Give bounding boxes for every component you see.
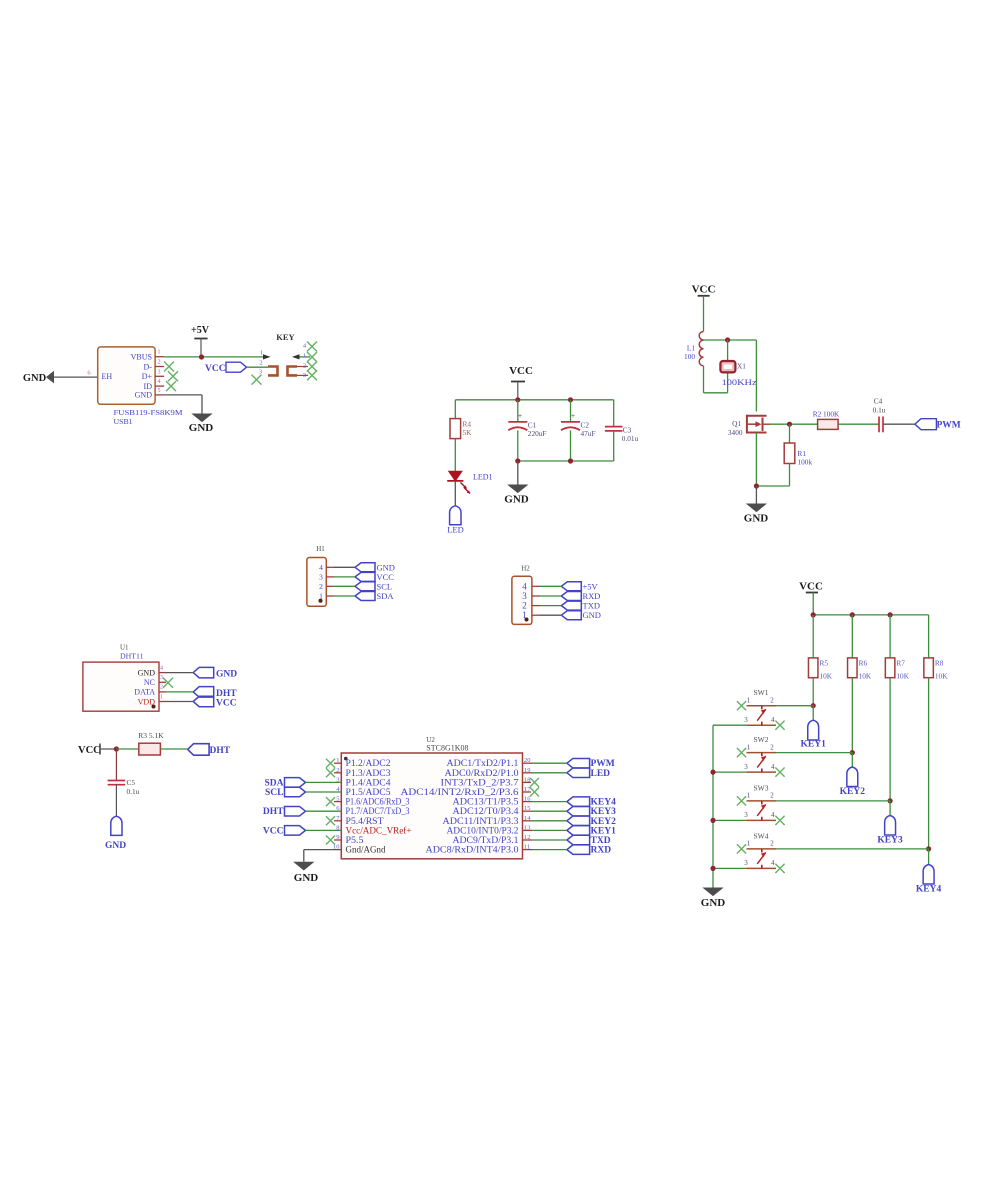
svg-text:GND: GND [216,670,237,680]
svg-text:2: 2 [319,582,323,591]
svg-text:1: 1 [160,694,163,700]
resistor R2 100K [818,419,839,429]
wire [851,678,853,753]
svg-text:P1.2/ADC2: P1.2/ADC2 [346,758,391,768]
svg-text:R5: R5 [820,659,829,668]
wire [789,424,791,443]
junction [515,397,520,402]
resistor R8 10K [928,615,930,658]
no-connect X U2 left pin 5 [334,801,341,803]
svg-text:R7: R7 [896,659,905,668]
svg-text:GND: GND [504,494,529,506]
svg-text:1: 1 [303,353,306,360]
junction [710,818,715,823]
svg-text:GND: GND [294,872,319,884]
no-connect X on KEY left pin3 [252,375,262,385]
svg-text:2: 2 [160,685,163,691]
svg-text:R6: R6 [859,659,868,668]
svg-text:VCC: VCC [205,364,226,374]
svg-text:RXD: RXD [591,846,612,856]
no-connect X U2 left pin 1 [334,762,341,764]
resistor R7 10K [889,615,891,658]
capacitor C3 0.01u [613,400,615,427]
no-connect X marks on KEY right half [307,342,317,352]
svg-text:4: 4 [771,859,775,867]
svg-text:2: 2 [158,360,161,366]
wire tank top [704,339,757,341]
no-connect X U2 left pin 9 [334,839,341,841]
svg-text:5: 5 [158,388,161,394]
svg-text:SCL: SCL [377,581,393,591]
wire [812,678,814,706]
svg-text:KEY4: KEY4 [916,885,942,895]
svg-text:VCC: VCC [692,284,716,296]
svg-text:3: 3 [522,591,527,601]
svg-text:SCL: SCL [265,788,283,798]
svg-text:DATA: DATA [134,688,155,697]
wire [166,672,193,674]
wire gnd bus (keys) [712,725,714,887]
wire [755,486,757,504]
KEY connector right half [292,354,300,359]
svg-text:100: 100 [684,352,695,361]
gnd net wire from USB GND pin [164,394,202,396]
wire [755,340,757,412]
svg-text:4: 4 [771,811,775,819]
net flag DHT (U1) [193,687,214,698]
no-connect X on ID [166,381,176,391]
inductor L1 100 [699,332,703,341]
svg-text:D-: D- [144,362,153,371]
no-connect X on D- [164,362,174,372]
resistor R5 10K [812,615,814,658]
wire top rail (keys) [813,614,928,616]
svg-text:RXD: RXD [583,591,601,601]
wire [115,749,117,781]
wire [116,748,138,750]
svg-text:Q1: Q1 [732,419,741,428]
ground GND (oscillator) [747,504,766,512]
svg-text:KEY1: KEY1 [591,826,617,836]
svg-text:VCC: VCC [799,581,823,593]
wire [166,701,193,703]
svg-text:5K: 5K [463,428,473,437]
svg-text:0.01u: 0.01u [622,434,639,443]
svg-text:P1.5/ADC5: P1.5/ADC5 [346,787,392,797]
no-connect X U2 left pin 2 [334,772,341,774]
net flag DHT (R3) [188,744,210,756]
no-connect X U2 right pin 17 [523,791,532,793]
net port KEY2 [851,753,853,767]
net flag RXD (U2) [532,849,567,851]
wire [755,433,757,487]
net port GND (C5) [111,816,122,835]
junction [568,458,573,463]
junction [754,483,759,488]
svg-text:4: 4 [160,665,163,671]
svg-text:4: 4 [771,763,775,771]
wire [115,785,117,817]
wire [517,461,519,485]
svg-text:ADC8/RxD/INT4/P3.0: ADC8/RxD/INT4/P3.0 [426,845,520,855]
wire Gnd/AGnd to ground [304,849,342,851]
svg-text:10K: 10K [935,672,948,681]
resistor R4 5K [450,419,461,439]
svg-text:3: 3 [158,369,161,375]
wire top rail [455,399,613,401]
ground GND (U2) [295,862,314,870]
svg-text:+: + [571,411,575,420]
net flag GND (U1) [193,667,214,678]
svg-text:TXD: TXD [591,836,611,846]
resistor R3 5.1K [139,743,161,755]
capacitor C5 0.1u [108,780,126,782]
svg-text:INT3/TxD_2/P3.7: INT3/TxD_2/P3.7 [441,777,520,787]
svg-text:C4: C4 [874,397,883,406]
junction [888,798,893,803]
svg-text:ADC14/INT2/RxD_2/P3.6: ADC14/INT2/RxD_2/P3.6 [401,787,520,797]
svg-text:ADC11/INT1/P3.3: ADC11/INT1/P3.3 [443,816,520,826]
net flag KEY2 (U2) [532,820,567,822]
svg-text:P5.4/RST: P5.4/RST [346,816,385,826]
LED LED1 [449,471,462,481]
svg-text:VCC: VCC [263,826,284,836]
svg-text:PWM: PWM [591,759,615,769]
svg-text:1: 1 [747,840,751,848]
no-connect X U2 left pin 7 [334,820,341,822]
junction [515,458,520,463]
svg-text:3400: 3400 [728,428,743,437]
junction [199,354,204,359]
svg-text:4: 4 [771,716,775,724]
svg-text:LED: LED [591,769,611,779]
svg-text:P5.5: P5.5 [346,835,365,845]
svg-text:3: 3 [744,811,748,819]
junction [811,612,816,617]
svg-text:10K: 10K [859,672,872,681]
junction [114,746,119,751]
svg-text:ADC13/T1/P3.5: ADC13/T1/P3.5 [453,797,520,807]
svg-text:2: 2 [259,360,262,367]
wire [789,464,791,487]
junction [926,846,931,851]
svg-text:GND: GND [135,391,153,400]
net flag KEY3 (U2) [532,810,567,812]
wire [54,376,98,378]
svg-text:KEY2: KEY2 [591,817,617,827]
svg-text:KEY3: KEY3 [591,807,617,817]
svg-text:KEY3: KEY3 [877,836,903,846]
junction [850,750,855,755]
svg-text:SW4: SW4 [754,831,769,840]
svg-text:SDA: SDA [377,591,395,601]
svg-text:P1.3/ADC3: P1.3/ADC3 [346,768,392,778]
svg-text:+: + [518,411,522,420]
svg-text:C5: C5 [127,778,136,787]
svg-text:USB1: USB1 [114,417,133,426]
capacitor C4 0.1u [878,417,880,433]
svg-text:R3 5.1K: R3 5.1K [138,731,164,740]
svg-text:3: 3 [744,763,748,771]
wire [889,678,891,801]
svg-text:GND: GND [138,668,156,677]
svg-text:0.1u: 0.1u [873,406,886,415]
transistor Q1 3400 [746,415,767,417]
svg-text:3: 3 [744,716,748,724]
no-connect X on NC [163,678,173,688]
svg-text:3: 3 [160,675,163,681]
svg-text:GND: GND [23,373,47,384]
svg-text:DHT: DHT [263,807,284,817]
svg-text:2: 2 [770,792,774,800]
capacitor C1 220uF [517,400,519,422]
svg-text:U1: U1 [120,644,129,652]
svg-text:4: 4 [158,379,161,385]
svg-text:3: 3 [319,572,323,581]
ground GND (filter) [509,485,528,493]
svg-text:VCC: VCC [216,698,237,708]
svg-text:P1.7/ADC7/TxD_3: P1.7/ADC7/TxD_3 [346,806,410,816]
svg-text:3: 3 [744,859,748,867]
svg-text:SW2: SW2 [754,735,769,744]
svg-text:1: 1 [260,350,263,357]
svg-text:P1.4/ADC4: P1.4/ADC4 [346,777,392,787]
no-connect X on D+ [168,371,178,381]
svg-text:VBUS: VBUS [131,353,152,362]
junction [725,337,730,342]
net port LED [450,506,461,525]
svg-text:GND: GND [189,422,214,434]
ground GND (below USB1) [193,414,212,422]
net flag VCC (U1) [193,696,214,707]
svg-text:KEY4: KEY4 [591,798,617,808]
crystal X1 100KHz [727,340,729,361]
ground GND (keys) [704,888,723,896]
svg-text:1: 1 [747,697,751,705]
svg-text:PWM: PWM [937,421,961,431]
svg-text:4: 4 [319,563,323,572]
svg-text:GND: GND [583,610,601,620]
wire [883,423,915,425]
wire [454,481,456,506]
svg-text:KEY1: KEY1 [801,740,827,750]
svg-text:ADC10/INT0/P3.2: ADC10/INT0/P3.2 [447,825,519,835]
junction [787,422,792,427]
resistor R6 10K [851,615,853,658]
svg-text:GND: GND [744,513,769,525]
wire [166,691,193,693]
svg-text:220uF: 220uF [528,429,547,438]
svg-text:EH: EH [102,372,113,381]
svg-text:X1: X1 [737,362,746,371]
net flag KEY1 (U2) [532,829,567,831]
svg-text:D+: D+ [142,372,153,381]
svg-text:ADC1/TxD2/P1.1: ADC1/TxD2/P1.1 [447,758,519,768]
junction [888,612,893,617]
junction [811,703,816,708]
svg-text:LED1: LED1 [473,473,493,482]
svg-text:4: 4 [522,581,527,591]
svg-text:47uF: 47uF [581,429,596,438]
svg-text:SDA: SDA [264,778,283,788]
svg-text:H2: H2 [521,565,530,573]
svg-text:ID: ID [144,382,153,391]
svg-text:SW3: SW3 [754,783,769,792]
svg-text:+5V: +5V [583,581,599,591]
svg-text:ADC12/T0/P3.4: ADC12/T0/P3.4 [453,806,520,816]
svg-text:2: 2 [522,601,527,611]
svg-text:LED: LED [447,525,464,535]
svg-text:ADC9/TxD/P3.1: ADC9/TxD/P3.1 [453,835,519,845]
svg-text:100k: 100k [798,458,813,467]
USB connector USB1 FUSB119-FS8K9M [98,347,155,404]
svg-text:0.1u: 0.1u [127,787,140,796]
svg-text:H1: H1 [316,545,325,553]
resistor R1 100k [784,443,795,464]
svg-text:STC8G1K08: STC8G1K08 [426,744,468,753]
svg-text:VCC: VCC [509,365,533,377]
net port KEY4 [928,849,930,865]
svg-text:+5V: +5V [191,325,210,336]
net flag PWM [915,419,937,430]
svg-text:DHT: DHT [216,689,237,699]
wire [160,748,187,750]
wire gate to R2/R1 junction [770,423,818,425]
svg-text:R8: R8 [935,659,944,668]
svg-text:1: 1 [158,350,161,356]
net flag KEY4 (U2) [532,801,567,803]
svg-text:2: 2 [303,363,306,370]
wire [454,400,456,419]
net flag LED (U2) [532,772,567,774]
svg-text:GND: GND [701,897,726,909]
junction [850,612,855,617]
wire VBUS to +5V junction and KEY [164,356,263,358]
svg-text:P1.6/ADC6/RxD_3: P1.6/ADC6/RxD_3 [346,797,410,807]
svg-text:Gnd/AGnd: Gnd/AGnd [346,845,386,855]
svg-text:DHT: DHT [210,746,231,756]
svg-text:1: 1 [747,792,751,800]
net port KEY1 [812,706,814,721]
svg-text:NC: NC [144,678,155,687]
svg-text:KEY2: KEY2 [840,787,866,797]
wire [454,439,456,472]
svg-text:ADC0/RxD2/P1.0: ADC0/RxD2/P1.0 [445,768,520,778]
svg-text:GND: GND [105,841,126,851]
svg-text:2: 2 [770,697,774,705]
svg-text:KEY: KEY [276,332,294,342]
junction [710,770,715,775]
svg-text:10K: 10K [820,672,833,681]
svg-text:SW1: SW1 [754,688,769,697]
net flag TXD (U2) [532,839,567,841]
svg-text:R2 100K: R2 100K [813,410,840,419]
svg-text:2: 2 [770,743,774,751]
no-connect X U2 right pin 18 [523,781,532,783]
capacitor C2 47uF [570,400,572,422]
wire [838,423,879,425]
junction [568,397,573,402]
net port KEY3 [889,801,891,816]
svg-text:GND: GND [377,562,395,572]
wire [703,366,705,393]
svg-text:Vcc/ADC_VRef+: Vcc/ADC_VRef+ [346,825,412,835]
svg-text:1: 1 [747,743,751,751]
svg-text:FUSB119-FS8K9M: FUSB119-FS8K9M [114,408,183,417]
net flag PWM (U2) [532,762,567,764]
junction [710,866,715,871]
svg-text:10K: 10K [896,672,909,681]
svg-text:DHT11: DHT11 [120,652,144,661]
svg-text:VCC: VCC [78,745,101,756]
svg-text:TXD: TXD [583,601,600,611]
wire bottom rail [518,460,614,462]
svg-text:3: 3 [303,372,306,379]
svg-text:2: 2 [770,840,774,848]
svg-text:100KHz: 100KHz [722,378,758,387]
wire [928,678,930,849]
